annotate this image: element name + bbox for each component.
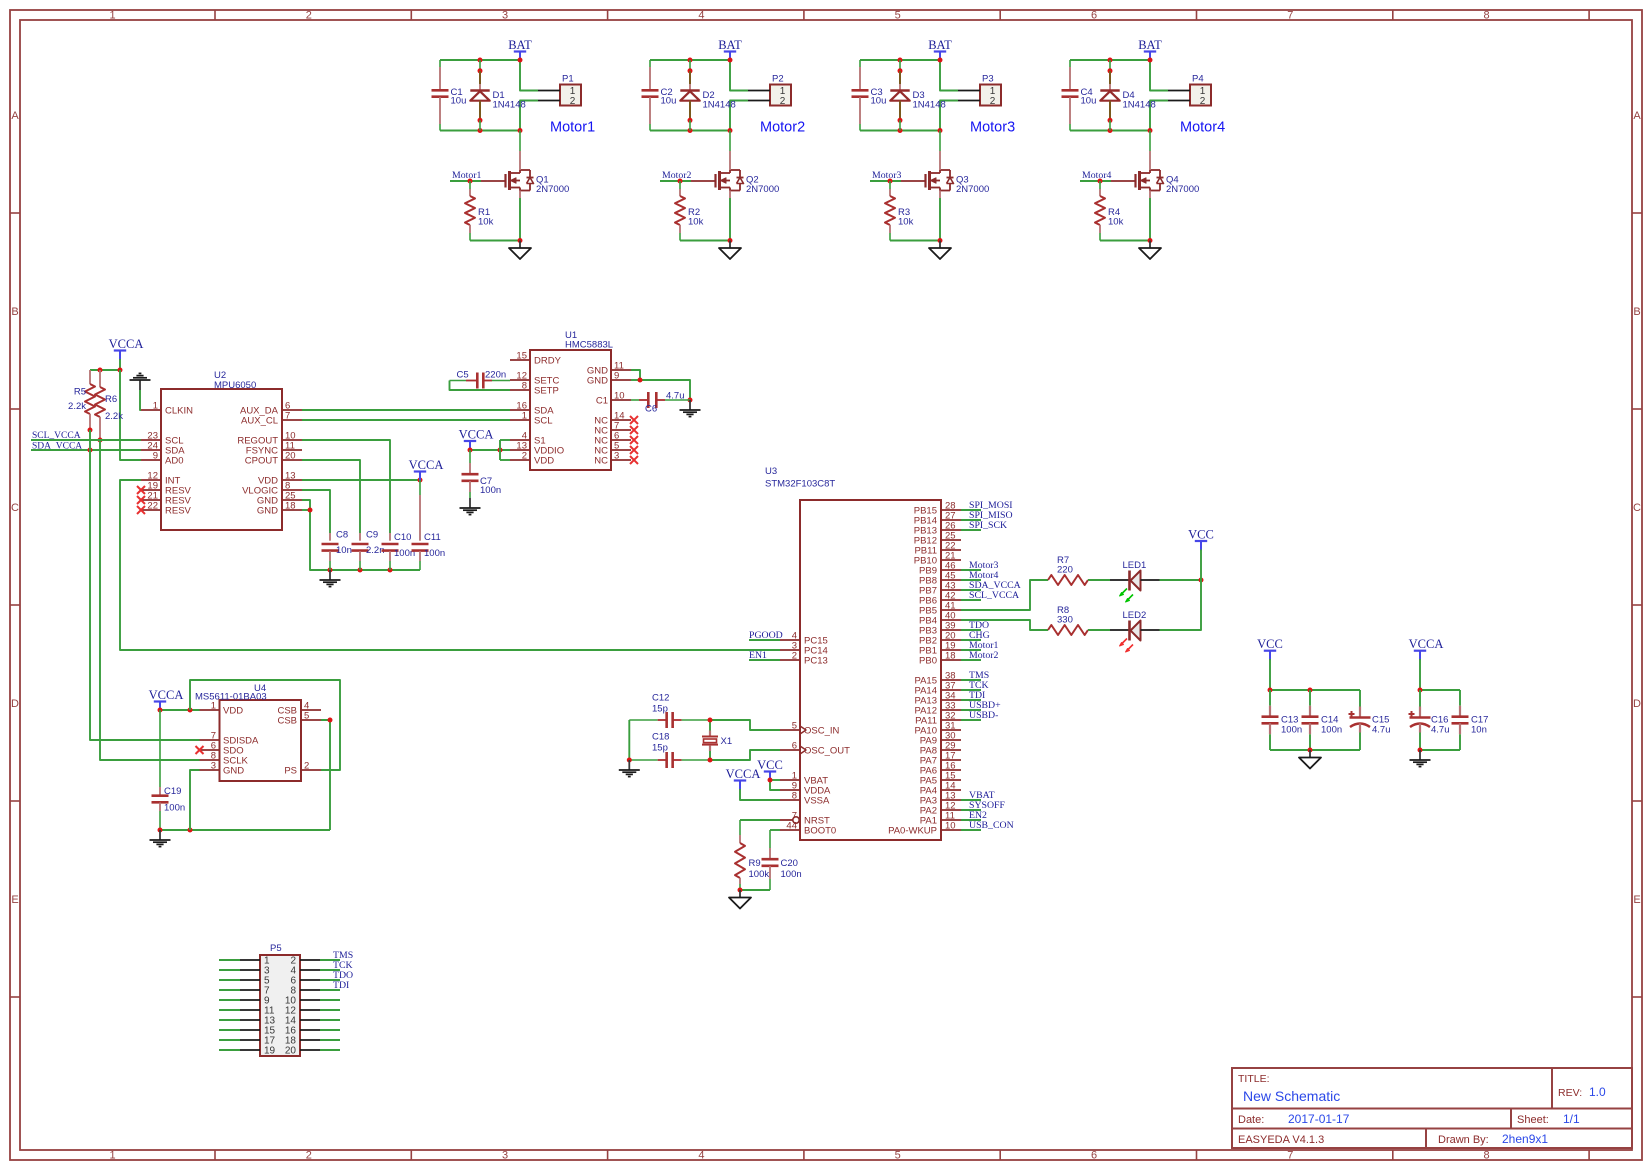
- P5 pin 18: [285, 1036, 320, 1047]
- svg-text:New Schematic: New Schematic: [1243, 1088, 1340, 1104]
- power flag VCCA (U3): [726, 767, 761, 790]
- wire gate motor1: [450, 179, 481, 184]
- svg-text:1N4148: 1N4148: [1123, 100, 1156, 111]
- U1 pin 15 DRDY: [510, 351, 562, 367]
- wire P5 left 19: [219, 1049, 240, 1051]
- wire SCL vertical to U4: [100, 440, 200, 760]
- power flag VCCA (cap bank): [1409, 637, 1444, 660]
- connector P4: [1168, 74, 1211, 108]
- svg-text:B: B: [1633, 306, 1640, 318]
- wire BAT rail motor4: [1070, 58, 1168, 91]
- wire P5 right 4: [320, 969, 340, 971]
- svg-text:GND: GND: [587, 376, 608, 387]
- net label Motor3: [961, 560, 998, 571]
- svg-text:P2: P2: [772, 74, 784, 85]
- U3 pin 14 PA4: [920, 781, 961, 797]
- svg-text:E: E: [11, 894, 18, 906]
- svg-text:TITLE:: TITLE:: [1238, 1073, 1270, 1085]
- transistor Q4 2N7000: [1111, 131, 1199, 199]
- U4 pin 1 VDD: [200, 701, 244, 717]
- svg-text:P5: P5: [270, 943, 282, 954]
- U2 pin 23 SCL: [141, 431, 183, 447]
- resistor R9 100k: [735, 820, 769, 890]
- wire P5 right 14: [320, 1019, 340, 1021]
- svg-text:8: 8: [1484, 1150, 1490, 1162]
- svg-text:Date:: Date:: [1238, 1114, 1264, 1126]
- net label SCL_VCCA: [961, 590, 1019, 601]
- svg-text:PS: PS: [284, 766, 297, 777]
- net label Motor2 (gate): [662, 170, 691, 181]
- svg-text:VDD: VDD: [534, 456, 554, 467]
- U1 pin 11 GND: [587, 361, 631, 377]
- capacitor C13 100n: [1262, 690, 1303, 750]
- svg-text:Sheet:: Sheet:: [1517, 1114, 1549, 1126]
- svg-text:OSC_OUT: OSC_OUT: [804, 746, 850, 757]
- svg-text:REV:: REV:: [1558, 1087, 1582, 1099]
- capacitor C8 10n: [322, 530, 352, 571]
- ground (C6): [680, 400, 701, 417]
- U2 pin 19 RESV: [137, 481, 192, 497]
- U2 pin 24 SDA: [141, 441, 185, 457]
- net label TCK: [961, 680, 989, 691]
- svg-text:AUX_CL: AUX_CL: [241, 416, 278, 427]
- net label SCL_VCCA: [32, 431, 81, 441]
- svg-text:1: 1: [109, 10, 115, 22]
- wire U4 GND pin: [190, 770, 200, 830]
- ground (motor 1): [509, 241, 531, 260]
- wire P5 left 9: [219, 999, 240, 1001]
- U1 pin 8 SETP: [510, 381, 559, 397]
- wire P5 right 10: [320, 999, 340, 1001]
- svg-text:2: 2: [990, 96, 996, 107]
- svg-text:2.2k: 2.2k: [105, 411, 123, 422]
- ground (U4): [150, 830, 171, 847]
- net label VBAT: [961, 790, 995, 801]
- net label TDO: [961, 620, 989, 631]
- net label Motor2 (connector): [760, 120, 805, 136]
- svg-text:VSSA: VSSA: [804, 796, 830, 807]
- P5 pin 4: [290, 966, 320, 977]
- net label Motor1: [961, 640, 998, 651]
- svg-text:1: 1: [522, 411, 527, 422]
- U3 pin 19 PB1: [919, 641, 961, 657]
- resistor R2 10k: [675, 181, 704, 241]
- U3 pin 21 PB10: [914, 551, 961, 567]
- svg-text:D: D: [1633, 698, 1641, 710]
- wire P5 right 2: [320, 959, 340, 961]
- svg-text:SPI_SCK: SPI_SCK: [969, 520, 1007, 531]
- svg-text:1/1: 1/1: [1563, 1112, 1580, 1126]
- capacitor C5 220n: [450, 370, 511, 389]
- wire AUX_CL to U1 SCL: [302, 419, 510, 421]
- net label Motor4 (connector): [1180, 120, 1225, 136]
- U3 pin 31 PA10: [914, 721, 961, 737]
- svg-text:Motor2: Motor2: [760, 120, 805, 136]
- svg-text:3: 3: [502, 10, 508, 22]
- capacitor C19 100n: [152, 710, 186, 830]
- svg-text:SETP: SETP: [534, 386, 559, 397]
- P5 pin 20: [285, 1046, 320, 1057]
- svg-text:Motor3: Motor3: [970, 120, 1015, 136]
- svg-text:GND: GND: [223, 766, 244, 777]
- svg-text:10u: 10u: [451, 96, 467, 107]
- wire C5 to SETP: [450, 381, 511, 391]
- wire VCCA to AD0: [120, 370, 141, 460]
- U4 pin 2 PS: [284, 761, 321, 777]
- svg-text:C18: C18: [652, 732, 669, 743]
- svg-text:5: 5: [304, 711, 309, 722]
- power flag VCC (LED): [1188, 528, 1214, 551]
- wire VCCA rail (R5 R6): [90, 359, 123, 373]
- svg-text:220n: 220n: [485, 370, 506, 381]
- wire P5 right 16: [320, 1029, 340, 1031]
- svg-text:220: 220: [1057, 565, 1073, 576]
- svg-text:STM32F103C8T: STM32F103C8T: [765, 479, 835, 490]
- wire source motor1: [470, 198, 523, 243]
- wire P5 left 1: [219, 959, 240, 961]
- svg-text:SCL_VCCA: SCL_VCCA: [969, 590, 1019, 601]
- U3 pin 13 PA3: [920, 791, 961, 807]
- svg-text:2N7000: 2N7000: [1166, 184, 1199, 195]
- U2 pin 10 REGOUT: [237, 431, 302, 447]
- U3 pin 30 PA9: [920, 731, 961, 747]
- net label SPI_MOSI: [961, 500, 1013, 511]
- P5 pin 15: [240, 1026, 276, 1037]
- svg-text:10: 10: [945, 821, 956, 832]
- net label TMS: [333, 950, 353, 961]
- U3 pin 6 OSC_OUT: [780, 741, 850, 757]
- svg-text:4: 4: [698, 1150, 704, 1162]
- wire NRST to R9: [740, 819, 780, 821]
- net label SPI_MISO: [961, 510, 1013, 521]
- svg-text:10u: 10u: [661, 96, 677, 107]
- svg-text:15: 15: [516, 351, 527, 362]
- resistor R4 10k: [1095, 181, 1124, 241]
- svg-text:4.7u: 4.7u: [1372, 725, 1391, 736]
- P5 pin 3: [240, 966, 270, 977]
- svg-text:6: 6: [1091, 10, 1097, 22]
- net label PGOOD: [749, 630, 783, 641]
- svg-text:8: 8: [1484, 10, 1490, 22]
- wire BAT rail motor2: [650, 58, 748, 91]
- svg-text:C8: C8: [336, 530, 348, 541]
- svg-text:1N4148: 1N4148: [703, 100, 736, 111]
- svg-text:C10: C10: [394, 532, 411, 543]
- svg-text:X1: X1: [721, 736, 733, 747]
- svg-text:8: 8: [522, 381, 527, 392]
- P5 pin 19: [240, 1046, 276, 1057]
- wire S1 VDD strap: [500, 440, 510, 460]
- svg-text:BAT: BAT: [718, 38, 742, 52]
- ground (oscillator): [619, 760, 640, 777]
- capacitor C18 15p: [629, 732, 710, 769]
- svg-text:Motor4: Motor4: [1082, 170, 1111, 181]
- net label TCK: [333, 960, 353, 971]
- wire R9 C20 ground rail: [738, 888, 771, 893]
- U3 pin 46 PB9: [919, 561, 961, 577]
- wire source motor2: [680, 198, 733, 243]
- svg-text:9: 9: [614, 371, 619, 382]
- capacitor C14 100n: [1302, 690, 1343, 750]
- svg-text:5: 5: [895, 1150, 901, 1162]
- svg-text:100n: 100n: [1281, 725, 1302, 736]
- U3 pin 41 PB5: [919, 601, 961, 617]
- U1 pin 6 NC: [594, 431, 638, 447]
- capacitor C6 4.7u: [631, 391, 690, 415]
- U4 pin 4 CSB: [277, 701, 321, 717]
- wire motor1 bottom rail: [440, 101, 538, 134]
- U3 pin 25 PB12: [914, 531, 961, 547]
- U3 pin 9 VDDA: [780, 781, 831, 797]
- svg-text:5: 5: [895, 10, 901, 22]
- wire P5 left 5: [219, 979, 240, 981]
- title block: [1232, 1068, 1632, 1148]
- svg-text:6: 6: [1091, 1150, 1097, 1162]
- svg-text:20: 20: [285, 1046, 297, 1057]
- svg-text:LED1: LED1: [1123, 560, 1147, 571]
- U1 pin 2 VDD: [510, 451, 554, 467]
- svg-text:VCCA: VCCA: [409, 458, 444, 472]
- capacitor C3: [852, 60, 887, 131]
- power flag VCCA (U4): [149, 688, 184, 711]
- U3 pin 5 OSC_IN: [780, 721, 840, 737]
- svg-text:VCCA: VCCA: [109, 337, 144, 351]
- wire P5 right 20: [320, 1049, 340, 1051]
- power flag BAT (motor 4): [1138, 38, 1162, 61]
- wire VCCA to U4 VDD: [158, 708, 200, 713]
- P5 pin 13: [240, 1016, 276, 1027]
- U3 pin 7 NRST: [780, 811, 830, 827]
- svg-text:10k: 10k: [688, 217, 704, 228]
- net label SYSOFF: [961, 800, 1005, 811]
- svg-text:10u: 10u: [1081, 96, 1097, 107]
- svg-text:E: E: [1633, 894, 1640, 906]
- svg-text:1: 1: [109, 1150, 115, 1162]
- U3 pin 29 PA8: [920, 741, 961, 757]
- U4 pin 6 SDO: [196, 741, 244, 757]
- U3 pin 20 PB2: [919, 631, 961, 647]
- U2 pin 1 CLKIN: [141, 401, 193, 417]
- svg-text:2: 2: [304, 761, 309, 772]
- wire SDA_VCCA: [31, 448, 141, 453]
- U3 pin 1 VBAT: [780, 771, 828, 787]
- capacitor C15 4.7u: [1349, 690, 1391, 750]
- svg-text:Motor4: Motor4: [1180, 120, 1225, 136]
- U3 pin 33 PA12: [914, 701, 961, 717]
- net label Motor4 (gate): [1082, 170, 1111, 181]
- wire BOOT0 to C20: [770, 829, 780, 831]
- svg-text:9: 9: [153, 451, 158, 462]
- IC U1 HMC5883L: [530, 330, 613, 470]
- net label Motor3 (gate): [872, 170, 901, 181]
- net label TDO: [333, 970, 353, 981]
- svg-text:15p: 15p: [652, 743, 668, 754]
- svg-text:R9: R9: [749, 858, 761, 869]
- svg-text:CPOUT: CPOUT: [245, 456, 278, 467]
- U2 pin 22 RESV: [137, 501, 192, 517]
- U4 pin 8 SCLK: [200, 751, 249, 767]
- P5 pin 2: [290, 956, 320, 967]
- svg-text:MPU6050: MPU6050: [214, 380, 256, 391]
- LED LED2: [1110, 610, 1160, 652]
- power flag BAT (motor 3): [928, 38, 952, 61]
- resistor R7 220: [1048, 555, 1088, 585]
- svg-text:7: 7: [1287, 10, 1293, 22]
- wire INT to PC14: [120, 480, 780, 650]
- U3 pin 11 PA1: [920, 811, 961, 827]
- wire P5 left 17: [219, 1039, 240, 1041]
- ground (VCCA bank): [1410, 750, 1431, 767]
- connector P2: [748, 74, 791, 108]
- wire motor4 bottom rail: [1070, 101, 1168, 134]
- power flag VCCA (U2 pullups): [109, 337, 144, 360]
- wire BAT rail motor3: [860, 58, 958, 91]
- svg-text:10n: 10n: [336, 545, 352, 556]
- wire gate motor4: [1080, 179, 1111, 184]
- svg-text:100n: 100n: [480, 485, 501, 496]
- svg-text:VCCA: VCCA: [726, 767, 761, 781]
- net label Motor4: [961, 570, 998, 581]
- U1 pin 10 C1: [596, 391, 631, 407]
- U3 pin 18 PB0: [919, 651, 961, 667]
- wire VCCA cap bank top rail: [1418, 659, 1461, 693]
- svg-text:7: 7: [285, 411, 290, 422]
- resistor R5 2.2k: [68, 370, 95, 433]
- svg-text:C: C: [1633, 502, 1641, 514]
- net label TMS: [961, 670, 989, 681]
- diode D1 1N4148: [470, 60, 525, 131]
- svg-text:VCC: VCC: [757, 758, 783, 772]
- svg-text:USB_CON: USB_CON: [969, 820, 1014, 831]
- wire VLOGIC to C8: [302, 490, 330, 533]
- svg-text:2: 2: [306, 10, 312, 22]
- wire U4 VDD to PS loop: [190, 680, 340, 770]
- ground (VCC bank): [1299, 750, 1321, 769]
- U2 pin 18 GND: [257, 501, 302, 517]
- svg-text:1: 1: [153, 401, 158, 412]
- svg-text:LED2: LED2: [1123, 610, 1147, 621]
- U2 pin 8 VLOGIC: [242, 481, 302, 497]
- ground (R9 C20): [729, 890, 751, 909]
- svg-text:1.0: 1.0: [1589, 1085, 1606, 1099]
- wire OSC_OUT: [708, 750, 781, 763]
- svg-text:C5: C5: [457, 370, 469, 381]
- net label EN2: [961, 810, 987, 821]
- svg-text:VCC: VCC: [1257, 637, 1283, 651]
- svg-text:P1: P1: [562, 74, 574, 85]
- U1 pin 5 NC: [594, 441, 638, 457]
- ground (U2 decoupling): [320, 570, 341, 587]
- svg-text:3: 3: [211, 761, 216, 772]
- svg-text:1: 1: [211, 701, 216, 712]
- resistor R6 2.2k: [95, 370, 123, 443]
- svg-text:20: 20: [285, 451, 296, 462]
- svg-text:USBD-: USBD-: [969, 710, 998, 721]
- svg-text:GND: GND: [257, 506, 278, 517]
- svg-text:VCCA: VCCA: [149, 688, 184, 702]
- wire U1 GND pins: [631, 370, 693, 403]
- capacitor C11 100n: [412, 480, 446, 570]
- svg-text:3: 3: [614, 451, 619, 462]
- U4 pin 7 SDISDA: [200, 731, 260, 747]
- svg-text:100k: 100k: [749, 869, 770, 880]
- svg-text:B: B: [11, 306, 18, 318]
- net label Motor1 (connector): [550, 120, 595, 136]
- U3 pin 34 PA13: [914, 691, 961, 707]
- IC U3 STM32F103C8T: [765, 466, 941, 840]
- svg-text:U3: U3: [765, 466, 777, 477]
- svg-text:2N7000: 2N7000: [536, 184, 569, 195]
- U3 pin 45 PB8: [919, 571, 961, 587]
- U1 pin 7 NC: [594, 421, 638, 437]
- U3 pin 32 PA11: [915, 711, 961, 727]
- wire PB4 to R8: [961, 620, 1048, 630]
- svg-text:VCC: VCC: [1188, 528, 1214, 542]
- U3 pin 38 PA15: [914, 671, 961, 687]
- P5 pin 1: [240, 956, 270, 967]
- U1 pin 4 S1: [510, 431, 546, 447]
- capacitor C17 10n: [1452, 690, 1489, 750]
- net label Motor2: [961, 650, 998, 661]
- svg-text:Motor2: Motor2: [969, 650, 998, 661]
- svg-text:10k: 10k: [898, 217, 914, 228]
- U3 pin 10 PA0-WKUP: [888, 821, 961, 837]
- U1 pin 9 GND: [587, 371, 631, 387]
- svg-text:3: 3: [502, 1150, 508, 1162]
- U2 pin 7 AUX_CL: [241, 411, 302, 427]
- U3 pin 28 PB15: [914, 501, 961, 517]
- power flag BAT (motor 1): [508, 38, 532, 61]
- svg-text:100n: 100n: [1321, 725, 1342, 736]
- wire SCL_VCCA: [31, 439, 141, 441]
- U2 pin 11 FSYNC: [246, 441, 302, 457]
- svg-text:Drawn By:: Drawn By:: [1438, 1134, 1489, 1146]
- svg-text:2017-01-17: 2017-01-17: [1288, 1112, 1350, 1126]
- P5 pin 16: [285, 1026, 320, 1037]
- U1 pin 3 NC: [594, 451, 638, 467]
- svg-text:1N4148: 1N4148: [493, 100, 526, 111]
- wire CPOUT to C9: [302, 460, 360, 533]
- wire VCC cap bank top rail: [1268, 659, 1361, 693]
- svg-text:10: 10: [614, 391, 625, 402]
- svg-text:BAT: BAT: [508, 38, 532, 52]
- svg-text:Motor1: Motor1: [452, 170, 481, 181]
- connector P5: [260, 943, 300, 1056]
- svg-text:CSB: CSB: [277, 716, 297, 727]
- U3 pin 27 PB14: [914, 511, 961, 527]
- diode D2 1N4148: [680, 60, 735, 131]
- svg-text:C1: C1: [596, 396, 608, 407]
- net label SPI_SCK: [961, 520, 1007, 531]
- U2 pin 12 INT: [141, 471, 181, 487]
- svg-text:19: 19: [264, 1046, 276, 1057]
- capacitor C2: [642, 60, 677, 131]
- capacitor C1: [432, 60, 467, 131]
- U3 pin 37 PA14: [914, 681, 961, 697]
- svg-text:VCCA: VCCA: [459, 428, 494, 442]
- P5 pin 11: [240, 1006, 275, 1017]
- wire C12 C18 left strap: [627, 720, 632, 763]
- capacitor C20 100n: [762, 830, 802, 890]
- svg-text:C: C: [11, 502, 19, 514]
- capacitor C9 2.2n: [352, 530, 385, 571]
- svg-text:C6: C6: [645, 404, 657, 415]
- net label SDA_VCCA: [32, 442, 82, 452]
- P5 pin 12: [285, 1006, 320, 1017]
- wire REGOUT to C10: [302, 440, 390, 533]
- wire source motor4: [1100, 198, 1153, 243]
- power flag VCCA (U1): [459, 428, 494, 451]
